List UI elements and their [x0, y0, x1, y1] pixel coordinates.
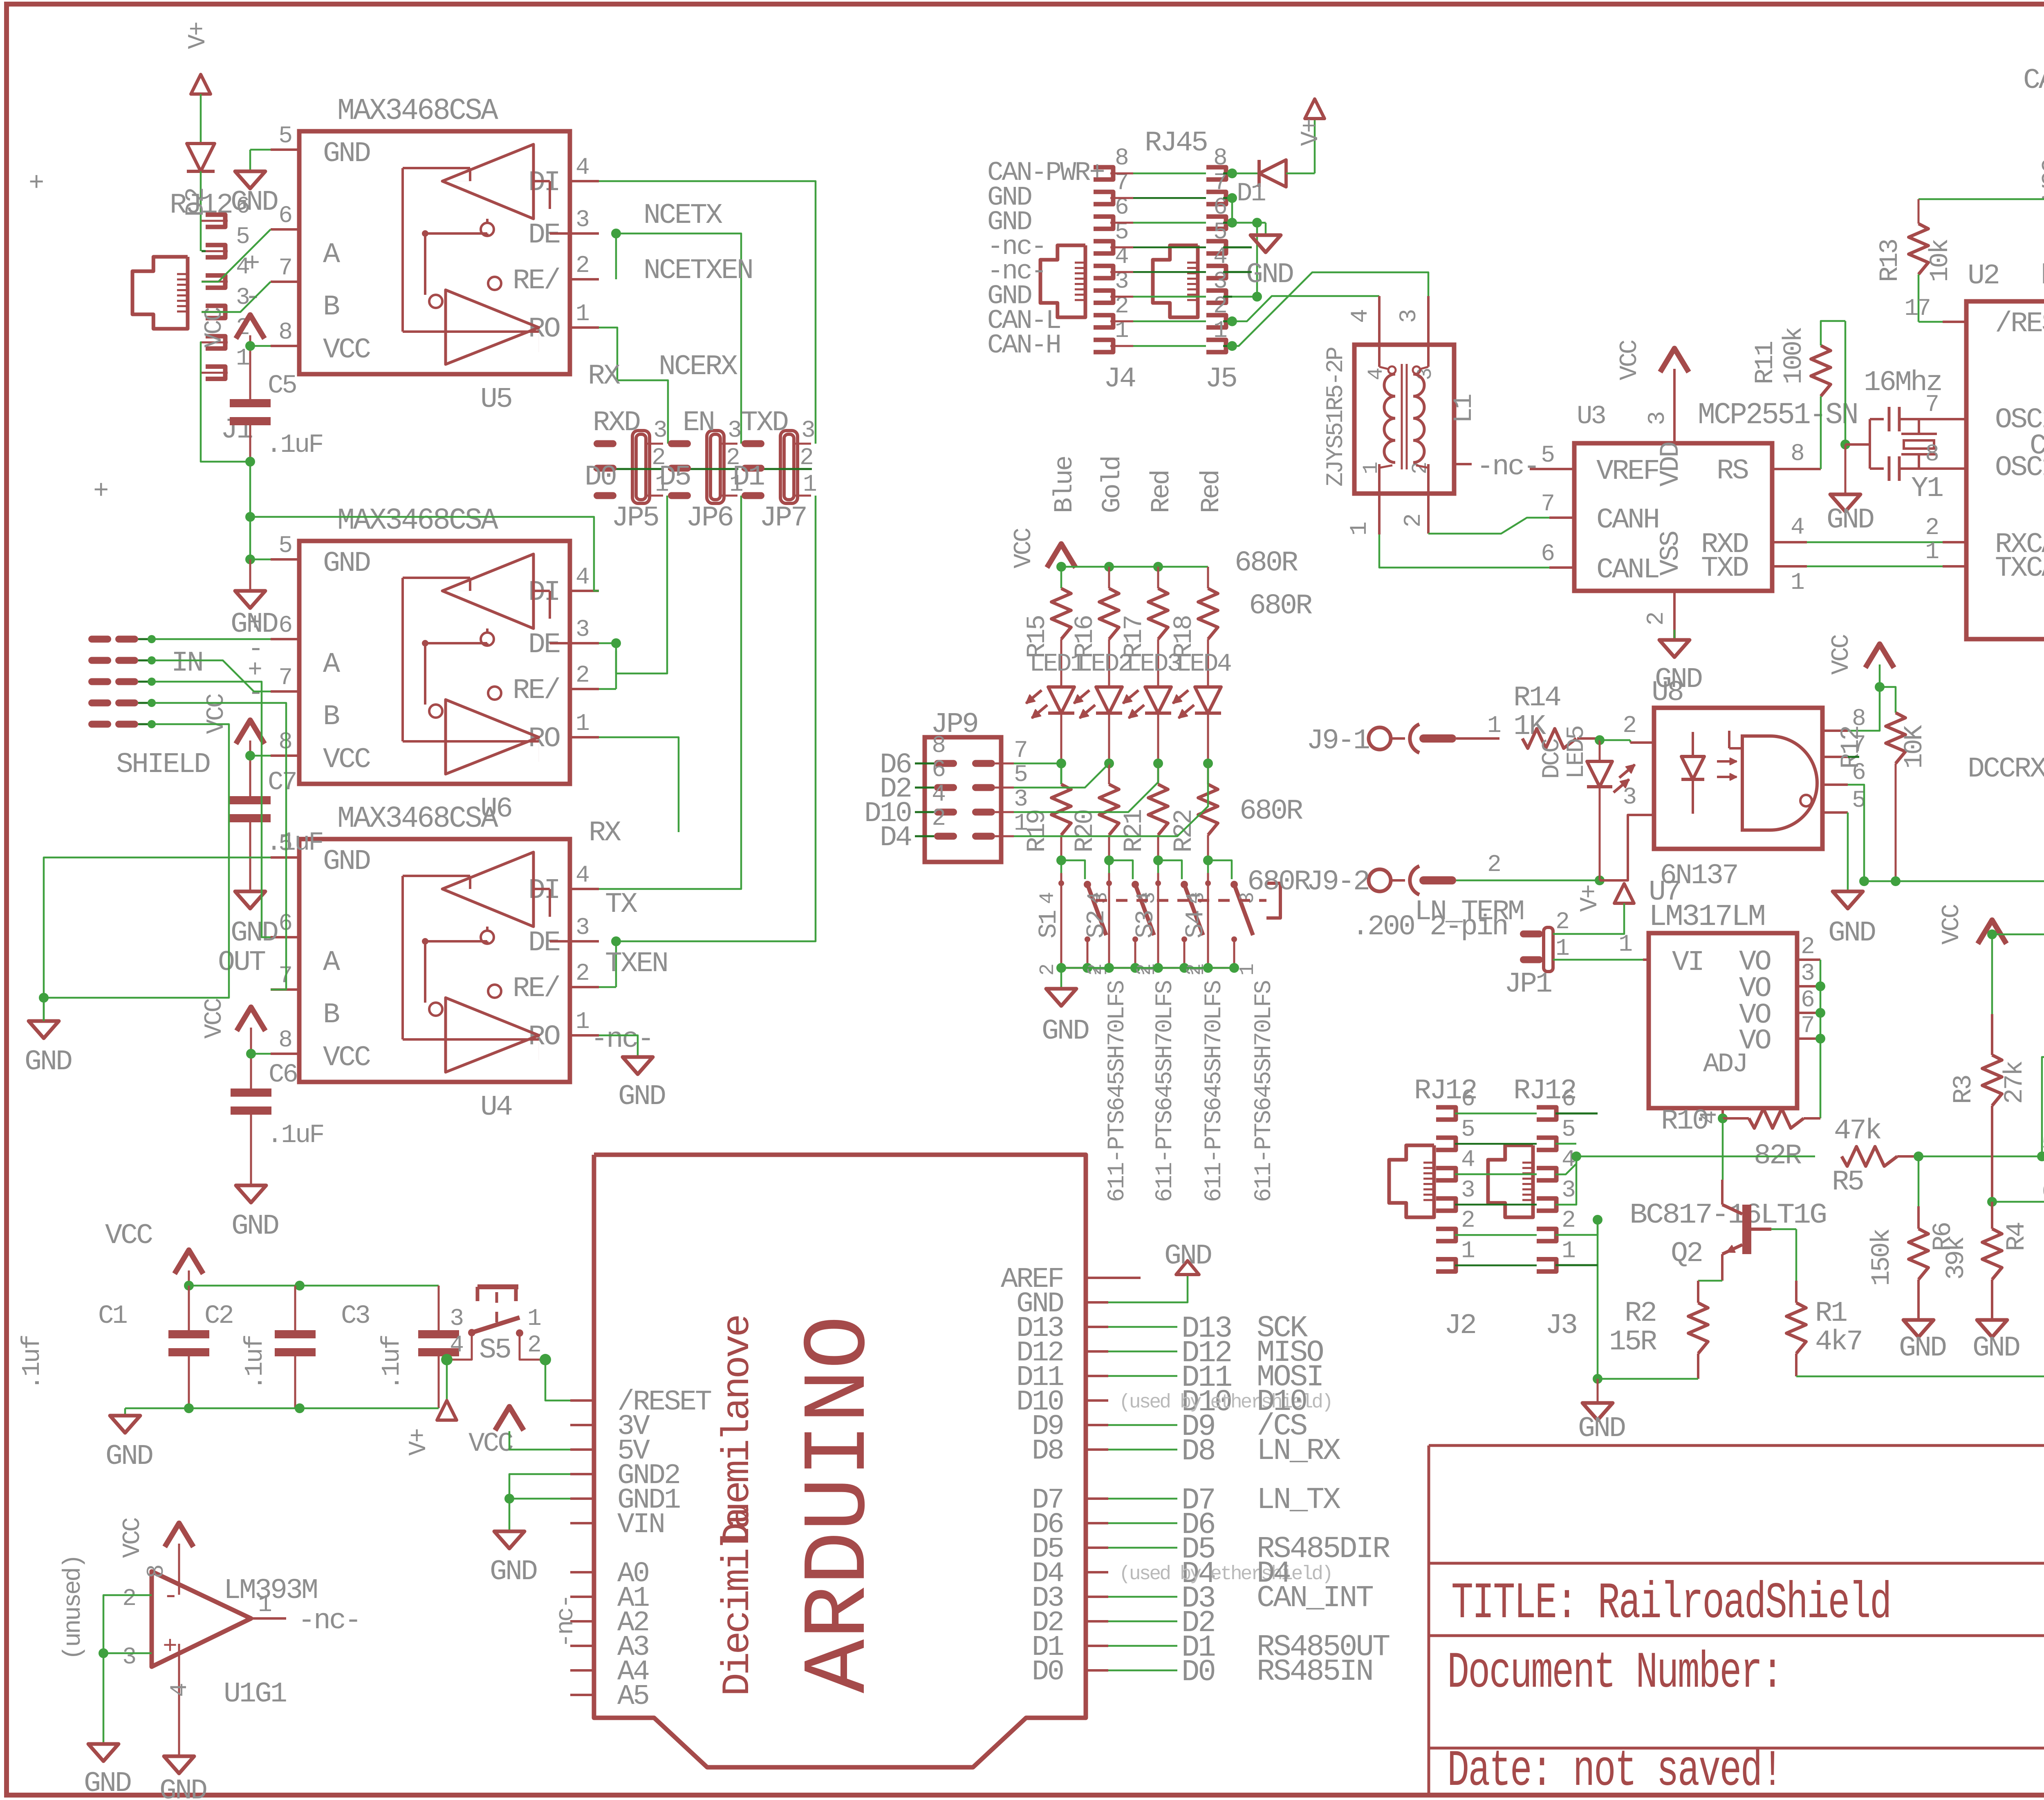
- svg-text:Blue: Blue: [1050, 457, 1080, 513]
- svg-text:2: 2: [800, 445, 812, 471]
- svg-text:4: 4: [1461, 1147, 1474, 1174]
- svg-text:150k: 150k: [1867, 1229, 1897, 1286]
- svg-text:RE/: RE/: [513, 973, 560, 1005]
- svg-text:RX: RX: [588, 360, 620, 393]
- svg-text:2: 2: [527, 1332, 540, 1359]
- svg-text:CAN-INT: CAN-INT: [2023, 65, 2044, 97]
- svg-text:LED5: LED5: [1563, 726, 1591, 779]
- svg-text:J9-2: J9-2: [1307, 866, 1369, 898]
- svg-text:VCC: VCC: [323, 334, 370, 366]
- svg-text:DCCRX: DCCRX: [1968, 753, 2044, 786]
- svg-text:EN: EN: [683, 407, 714, 439]
- svg-text:3: 3: [1014, 786, 1027, 813]
- svg-text:VCC: VCC: [105, 1220, 152, 1252]
- svg-text:ZJYS51R5-2P: ZJYS51R5-2P: [1323, 348, 1349, 487]
- svg-text:5: 5: [1541, 442, 1554, 469]
- svg-text:2: 2: [1461, 1207, 1474, 1234]
- svg-text:LN_TX: LN_TX: [1257, 1483, 1341, 1517]
- svg-text:1: 1: [1555, 936, 1569, 962]
- svg-text:J5: J5: [1205, 363, 1236, 395]
- svg-text:Q2: Q2: [1671, 1238, 1702, 1270]
- svg-text:5: 5: [1562, 1116, 1575, 1143]
- svg-text:GND: GND: [25, 1046, 72, 1078]
- svg-text:VCC: VCC: [1938, 904, 1966, 945]
- svg-text:VIN: VIN: [617, 1509, 664, 1541]
- svg-text:R12: R12: [1837, 727, 1866, 769]
- svg-text:1: 1: [576, 301, 589, 328]
- svg-text:4: 4: [1084, 893, 1107, 904]
- svg-text:VCC: VCC: [119, 1518, 147, 1558]
- svg-text:-nc-: -nc-: [591, 1023, 653, 1056]
- svg-text:15R: 15R: [1609, 1326, 1657, 1358]
- svg-text:VREF: VREF: [1596, 456, 1659, 488]
- svg-text:4: 4: [576, 155, 589, 181]
- svg-text:TXD: TXD: [741, 407, 788, 439]
- svg-text:1: 1: [1791, 570, 1804, 596]
- svg-text:R21: R21: [1120, 810, 1149, 853]
- svg-text:CANL: CANL: [1596, 554, 1659, 586]
- svg-text:B: B: [323, 291, 339, 323]
- svg-text:4: 4: [450, 1332, 463, 1359]
- svg-text:680R: 680R: [1247, 866, 1311, 898]
- svg-text:17: 17: [1904, 296, 1930, 322]
- svg-text:R20: R20: [1071, 810, 1100, 853]
- svg-text:S4: S4: [1181, 911, 1210, 938]
- svg-text:4: 4: [1183, 893, 1206, 904]
- svg-text:2: 2: [1401, 515, 1427, 527]
- svg-text:GND: GND: [323, 138, 370, 170]
- svg-text:GND: GND: [231, 186, 278, 219]
- svg-text:B: B: [323, 701, 339, 733]
- svg-text:2: 2: [1036, 965, 1060, 976]
- svg-text:2: 2: [1487, 852, 1500, 878]
- svg-text:3: 3: [1801, 961, 1814, 987]
- svg-text:VSS: VSS: [1655, 532, 1686, 576]
- svg-text:TXCAN: TXCAN: [1995, 552, 2044, 585]
- svg-text:8: 8: [278, 319, 291, 346]
- svg-text:VCC: VCC: [323, 744, 370, 776]
- svg-text:S1: S1: [1034, 911, 1063, 938]
- svg-text:+: +: [248, 610, 261, 637]
- svg-text:3: 3: [1623, 784, 1636, 811]
- svg-text:D4: D4: [880, 822, 911, 854]
- svg-text:1: 1: [1562, 1238, 1575, 1265]
- svg-text:DE: DE: [528, 629, 560, 661]
- svg-text:A: A: [323, 649, 340, 681]
- svg-text:.1uF: .1uF: [267, 1121, 323, 1150]
- svg-text:MAX3468CSA: MAX3468CSA: [337, 94, 498, 128]
- svg-text:D8: D8: [1181, 1434, 1215, 1469]
- svg-text:LED4: LED4: [1176, 649, 1231, 678]
- svg-text:4: 4: [932, 781, 945, 808]
- svg-text:CAN-H: CAN-H: [987, 330, 1060, 361]
- svg-text:2: 2: [576, 253, 588, 279]
- svg-text:A: A: [323, 239, 340, 271]
- svg-text:NCETXEN: NCETXEN: [643, 255, 752, 287]
- svg-text:.1uF: .1uF: [266, 828, 323, 858]
- svg-text:4: 4: [1133, 893, 1156, 904]
- svg-text:CANH: CANH: [1596, 504, 1659, 536]
- svg-text:NCETX: NCETX: [643, 200, 722, 232]
- svg-text:V+: V+: [184, 22, 212, 49]
- svg-text:7: 7: [1801, 1013, 1813, 1039]
- svg-text:-nc-: -nc-: [298, 1605, 360, 1637]
- svg-text:8: 8: [932, 733, 944, 759]
- svg-text:VCC: VCC: [203, 694, 231, 734]
- svg-text:4: 4: [576, 564, 589, 591]
- svg-text:J2: J2: [1444, 1310, 1475, 1342]
- svg-text:TITLE: RailroadShield: TITLE: RailroadShield: [1451, 1575, 1891, 1633]
- svg-text:2: 2: [576, 662, 588, 689]
- svg-text:10k: 10k: [1926, 239, 1955, 282]
- svg-text:GND: GND: [323, 548, 370, 580]
- svg-text:D1: D1: [733, 461, 764, 494]
- svg-text:2: 2: [1801, 934, 1813, 961]
- svg-text:3: 3: [1562, 1177, 1575, 1204]
- svg-text:3: 3: [576, 617, 589, 643]
- svg-text:D8: D8: [1032, 1435, 1063, 1468]
- svg-text:OUT: OUT: [218, 947, 265, 979]
- svg-text:R22: R22: [1170, 810, 1199, 853]
- svg-text:RX: RX: [589, 817, 621, 849]
- svg-text:GND: GND: [1578, 1413, 1625, 1445]
- svg-text:GND: GND: [159, 1775, 206, 1800]
- svg-text:IN: IN: [171, 647, 202, 680]
- svg-text:-nc-: -nc-: [552, 1596, 580, 1648]
- svg-text:CLKOUT/SOF: CLKOUT/SOF: [2030, 430, 2044, 462]
- svg-text:8: 8: [278, 1027, 291, 1054]
- svg-text:GND: GND: [1042, 1015, 1089, 1048]
- svg-text:6: 6: [278, 203, 291, 229]
- svg-text:GND: GND: [1828, 917, 1875, 949]
- svg-text:3: 3: [1461, 1177, 1474, 1204]
- svg-text:LM317LM: LM317LM: [1649, 900, 1764, 934]
- svg-text:MAX3468CSA: MAX3468CSA: [337, 504, 498, 538]
- svg-text:4: 4: [1562, 1147, 1575, 1174]
- svg-text:3: 3: [728, 417, 741, 444]
- svg-text:2: 2: [1555, 909, 1568, 936]
- svg-text:RE/: RE/: [513, 265, 560, 297]
- svg-text:1: 1: [803, 471, 816, 498]
- svg-text:TXD: TXD: [1701, 552, 1748, 585]
- svg-text:1: 1: [1618, 931, 1632, 958]
- svg-text:2: 2: [1562, 1207, 1574, 1234]
- svg-text:D1: D1: [1237, 179, 1265, 209]
- svg-text:1: 1: [1925, 539, 1938, 566]
- svg-text:2: 2: [1925, 515, 1938, 541]
- svg-text:7: 7: [278, 665, 291, 691]
- svg-text:Red: Red: [1197, 471, 1226, 513]
- svg-text:7: 7: [278, 255, 291, 282]
- svg-text:U4: U4: [480, 1091, 512, 1124]
- svg-text:1: 1: [576, 711, 589, 737]
- svg-text:8: 8: [1925, 441, 1938, 468]
- svg-text:8: 8: [1213, 145, 1226, 172]
- svg-text:VCC: VCC: [323, 1042, 370, 1074]
- svg-text:R4: R4: [2002, 1223, 2032, 1251]
- svg-text:.1uf: .1uf: [377, 1335, 406, 1390]
- svg-text:JP6: JP6: [686, 502, 733, 534]
- svg-text:6: 6: [1461, 1086, 1474, 1113]
- svg-text:U1G1: U1G1: [224, 1678, 286, 1710]
- svg-text:8: 8: [278, 729, 291, 756]
- svg-text:DE: DE: [528, 927, 560, 959]
- svg-text:-: -: [163, 1581, 177, 1611]
- svg-text:S2: S2: [1082, 911, 1111, 938]
- svg-text:100k: 100k: [1780, 328, 1809, 384]
- svg-text:1: 1: [1236, 964, 1260, 976]
- svg-text:VO: VO: [1739, 1025, 1771, 1057]
- svg-text:+: +: [93, 477, 108, 506]
- svg-text:GND: GND: [323, 846, 370, 878]
- svg-text:680R: 680R: [1235, 547, 1298, 579]
- svg-text:MAX3468CSA: MAX3468CSA: [337, 802, 498, 836]
- svg-text:DE: DE: [528, 219, 560, 251]
- svg-text:D5: D5: [659, 461, 690, 494]
- svg-text:C7: C7: [268, 768, 296, 797]
- svg-text:8: 8: [1791, 441, 1803, 467]
- svg-text:Gold: Gold: [1098, 457, 1127, 513]
- svg-text:4: 4: [1036, 893, 1060, 904]
- svg-text:7: 7: [1925, 392, 1938, 418]
- svg-text:ARDUINO: ARDUINO: [789, 1315, 891, 1693]
- svg-text:S5: S5: [479, 1334, 510, 1367]
- svg-text:8: 8: [1115, 145, 1127, 172]
- svg-text:+: +: [163, 1633, 176, 1661]
- svg-text:4: 4: [1791, 514, 1804, 541]
- svg-text:RXD: RXD: [593, 407, 640, 439]
- svg-text:Document Number:: Document Number:: [1447, 1644, 1782, 1702]
- svg-text:3: 3: [576, 915, 589, 941]
- svg-text:-nc-: -nc-: [1477, 451, 1539, 483]
- svg-text:2: 2: [122, 1586, 135, 1612]
- svg-text:LED1: LED1: [1029, 649, 1085, 678]
- svg-text:VCC: VCC: [201, 307, 229, 348]
- svg-text:RJ45: RJ45: [1145, 127, 1207, 159]
- svg-text:RS: RS: [1717, 455, 1748, 487]
- svg-text:6: 6: [2042, 1179, 2044, 1205]
- svg-text:2: 2: [1183, 965, 1206, 976]
- svg-text:LED2: LED2: [1077, 649, 1132, 678]
- svg-text:2: 2: [1643, 613, 1670, 626]
- svg-text:GND: GND: [1164, 1240, 1211, 1273]
- svg-text:VCC: VCC: [2038, 159, 2044, 199]
- svg-text:MCP2551-SN: MCP2551-SN: [1698, 398, 1857, 433]
- svg-text:5: 5: [2042, 1131, 2044, 1157]
- svg-text:LED3: LED3: [1126, 649, 1181, 678]
- svg-text:7: 7: [278, 963, 291, 990]
- svg-text:611-PTS645SH70LFS: 611-PTS645SH70LFS: [1251, 981, 1277, 1202]
- svg-text:DCC: DCC: [1538, 739, 1566, 779]
- svg-text:7: 7: [1541, 491, 1553, 518]
- svg-text:(unused): (unused): [60, 1555, 87, 1660]
- svg-text:GND: GND: [231, 917, 278, 949]
- svg-text:5: 5: [236, 224, 249, 250]
- svg-text:+: +: [29, 169, 43, 198]
- svg-text:NCERX: NCERX: [659, 351, 737, 383]
- svg-text:4: 4: [576, 862, 589, 889]
- svg-text:L1: L1: [1450, 395, 1479, 423]
- svg-text:680R: 680R: [1249, 590, 1312, 622]
- svg-text:GND: GND: [618, 1081, 665, 1113]
- svg-text:6: 6: [1562, 1086, 1575, 1113]
- svg-text:2: 2: [932, 806, 944, 832]
- svg-text:GND: GND: [231, 1210, 278, 1243]
- svg-text:611-PTS645SH70LFS: 611-PTS645SH70LFS: [1104, 981, 1131, 1202]
- svg-text:J9-1: J9-1: [1307, 725, 1369, 757]
- svg-text:V+: V+: [1576, 885, 1604, 912]
- svg-text:D0: D0: [1181, 1655, 1215, 1690]
- svg-text:A5: A5: [617, 1681, 648, 1713]
- svg-text:6: 6: [278, 911, 291, 937]
- svg-text:GND: GND: [84, 1768, 131, 1800]
- svg-text:680R: 680R: [1239, 795, 1303, 828]
- svg-text:C3: C3: [341, 1302, 369, 1331]
- svg-text:3: 3: [122, 1644, 135, 1671]
- svg-text:R2: R2: [1625, 1297, 1656, 1330]
- svg-text:2: 2: [576, 961, 588, 987]
- svg-text:R1: R1: [1815, 1297, 1847, 1330]
- svg-text:U3: U3: [1577, 402, 1605, 431]
- svg-text:LN_TERM: LN_TERM: [1414, 896, 1523, 928]
- svg-text:R19: R19: [1023, 810, 1052, 853]
- svg-text:611-PTS645SH70LFS: 611-PTS645SH70LFS: [1201, 981, 1228, 1202]
- svg-text:VCC: VCC: [201, 999, 229, 1039]
- svg-text:Y1: Y1: [1911, 473, 1943, 505]
- svg-text:/RESET: /RESET: [1995, 308, 2044, 340]
- svg-text:VCC: VCC: [468, 1428, 513, 1459]
- svg-text:R14: R14: [1513, 682, 1560, 714]
- svg-text:VCC: VCC: [1010, 528, 1038, 568]
- svg-text:1: 1: [258, 1592, 271, 1618]
- svg-text:RS485IN: RS485IN: [1257, 1655, 1372, 1689]
- svg-text:3: 3: [1396, 310, 1423, 323]
- svg-text:-: -: [244, 281, 260, 314]
- svg-text:4: 4: [167, 1684, 193, 1697]
- svg-text:3: 3: [801, 417, 814, 444]
- svg-text:U8: U8: [1652, 677, 1683, 709]
- svg-text:RE/: RE/: [513, 675, 560, 707]
- svg-text:TXEN: TXEN: [605, 948, 667, 980]
- svg-text:A: A: [323, 947, 340, 979]
- svg-text:JP5: JP5: [612, 502, 658, 534]
- svg-text:R13: R13: [1876, 240, 1905, 282]
- svg-text:2: 2: [1623, 713, 1635, 739]
- svg-text:GND: GND: [1827, 504, 1874, 536]
- svg-text:5: 5: [1852, 788, 1865, 814]
- svg-text:J4: J4: [1104, 363, 1135, 395]
- svg-text:GND: GND: [1246, 259, 1293, 291]
- svg-text:6: 6: [278, 613, 291, 639]
- svg-text:C1: C1: [98, 1302, 127, 1331]
- svg-text:1: 1: [1487, 713, 1500, 739]
- svg-text:4: 4: [1364, 368, 1388, 380]
- svg-text:D0: D0: [585, 461, 616, 494]
- svg-text:3: 3: [1645, 412, 1671, 425]
- svg-text:GND: GND: [1972, 1332, 2019, 1365]
- svg-text:J3: J3: [1545, 1310, 1576, 1342]
- svg-text:6: 6: [1801, 987, 1814, 1014]
- svg-text:10K: 10K: [1900, 725, 1930, 769]
- svg-text:Date: not saved!: Date: not saved!: [1447, 1742, 1782, 1800]
- svg-text:611-PTS645SH70LFS: 611-PTS645SH70LFS: [1152, 981, 1179, 1202]
- svg-text:LN_RX: LN_RX: [1257, 1434, 1341, 1468]
- svg-text:VI: VI: [1672, 947, 1703, 979]
- svg-text:5: 5: [278, 123, 291, 150]
- svg-text:1: 1: [1014, 810, 1027, 837]
- svg-text:S3: S3: [1131, 911, 1160, 938]
- svg-text:5: 5: [1014, 762, 1027, 788]
- svg-text:V+: V+: [405, 1429, 433, 1456]
- svg-text:4: 4: [1347, 310, 1374, 323]
- svg-text:39k: 39k: [1942, 1237, 1971, 1280]
- svg-text:3: 3: [653, 417, 666, 444]
- svg-text:3: 3: [576, 207, 589, 233]
- svg-text:JP7: JP7: [760, 502, 806, 534]
- svg-text:5: 5: [278, 533, 291, 559]
- svg-text:8: 8: [143, 1566, 170, 1578]
- svg-text:7: 7: [1014, 738, 1026, 764]
- svg-text:27k: 27k: [2000, 1061, 2030, 1104]
- svg-text:BC817-16LT1G: BC817-16LT1G: [1629, 1199, 1826, 1232]
- svg-text:5: 5: [1461, 1116, 1474, 1143]
- svg-text:VDD: VDD: [1655, 442, 1686, 487]
- svg-text:.1uf: .1uf: [18, 1335, 47, 1390]
- svg-text:R11: R11: [1751, 341, 1780, 384]
- svg-text:6: 6: [932, 757, 945, 783]
- svg-text:B: B: [323, 999, 339, 1031]
- svg-text:R5: R5: [1832, 1166, 1863, 1199]
- svg-text:CAN_INT: CAN_INT: [1257, 1581, 1373, 1616]
- svg-text:2: 2: [1133, 965, 1156, 976]
- svg-text:1: 1: [1347, 523, 1373, 536]
- svg-text:D2: D2: [182, 189, 211, 217]
- svg-text:U2: U2: [1968, 260, 1999, 292]
- svg-text:6: 6: [1541, 541, 1554, 568]
- svg-text:4k7: 4k7: [1815, 1326, 1862, 1358]
- svg-text:TX: TX: [605, 889, 637, 921]
- svg-text:1: 1: [1461, 1238, 1474, 1265]
- svg-text:Duemilanove: Duemilanove: [716, 1316, 760, 1546]
- svg-text:U5: U5: [480, 384, 511, 416]
- svg-text:V+: V+: [1297, 119, 1325, 146]
- svg-text:D0: D0: [1032, 1656, 1063, 1688]
- svg-text:Red: Red: [1147, 471, 1177, 513]
- svg-text:3: 3: [450, 1306, 463, 1332]
- svg-text:2: 2: [1084, 965, 1107, 976]
- svg-text:R10: R10: [1661, 1105, 1708, 1138]
- svg-text:1: 1: [527, 1306, 540, 1332]
- svg-text:VCC: VCC: [1828, 635, 1856, 675]
- svg-text:.1uF: .1uF: [266, 431, 323, 460]
- svg-text:SHIELD: SHIELD: [116, 749, 210, 781]
- svg-text:C6: C6: [269, 1060, 297, 1090]
- svg-text:R3: R3: [1949, 1076, 1979, 1104]
- svg-text:GND: GND: [1899, 1332, 1946, 1365]
- svg-text:1: 1: [576, 1009, 589, 1035]
- svg-text:GND: GND: [490, 1556, 537, 1588]
- svg-text:VCC: VCC: [1616, 340, 1644, 380]
- svg-text:MCP2515-SO: MCP2515-SO: [2041, 258, 2044, 293]
- svg-text:JP1: JP1: [1504, 968, 1551, 1001]
- svg-text:C2: C2: [204, 1302, 233, 1331]
- svg-text:47k: 47k: [1834, 1115, 1881, 1147]
- svg-text:.1uf: .1uf: [240, 1335, 269, 1390]
- svg-text:C5: C5: [268, 371, 296, 401]
- svg-text:GND: GND: [105, 1441, 152, 1473]
